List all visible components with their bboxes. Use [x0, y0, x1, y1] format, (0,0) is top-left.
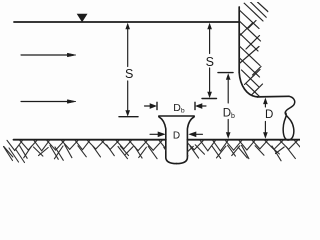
standpipe right wall with flare	[177, 117, 195, 164]
ground hatching	[4, 140, 313, 162]
svg-text:D: D	[265, 109, 273, 121]
water surface triangle marker	[78, 14, 87, 21]
headwall face	[238, 7, 240, 73]
dimension Db standpipe: left arrow and tick	[145, 102, 158, 109]
dimension S right: line	[208, 24, 212, 98]
pipe broken-end squiggle	[283, 96, 295, 140]
dimension S right: bottom tick	[202, 98, 217, 100]
svg-text:S: S	[125, 67, 133, 81]
dimension Db wall: top tick	[218, 72, 233, 74]
pipe crown line	[258, 95, 290, 98]
floor line right segment	[187, 139, 300, 141]
floor line left segment	[14, 139, 166, 141]
dimension D pipe right: line with arrows	[264, 98, 268, 137]
standpipe D arrows	[150, 132, 203, 137]
svg-text:S: S	[206, 55, 214, 69]
standpipe bell lip	[159, 115, 194, 117]
headwall bell curve into pipe crown	[239, 73, 257, 97]
flow arrow 2	[21, 100, 76, 104]
water surface line	[14, 21, 239, 23]
dimension Db wall: line with arrows	[226, 74, 230, 138]
standpipe left wall with flare	[159, 117, 177, 164]
dimension S left: bottom tick	[119, 116, 138, 118]
flow arrow 1	[21, 53, 76, 57]
dimension S left: line	[126, 24, 130, 116]
svg-text:D: D	[173, 131, 180, 142]
dimension Db standpipe: right arrow and tick	[195, 102, 206, 109]
headwall hatching	[239, 2, 270, 97]
